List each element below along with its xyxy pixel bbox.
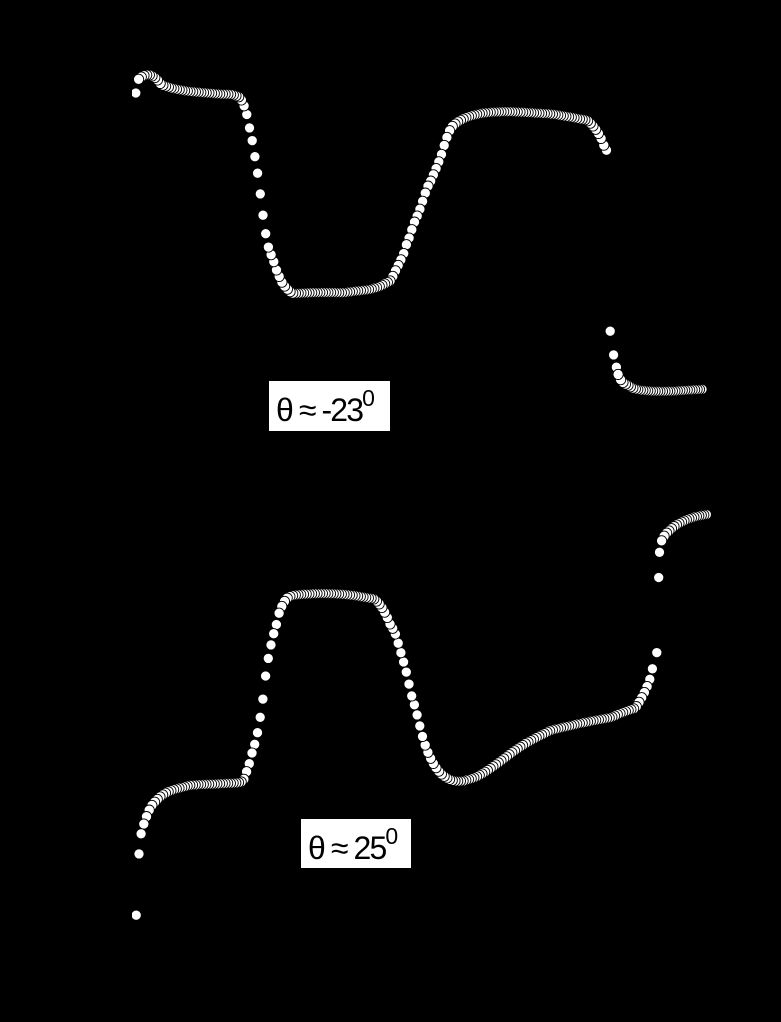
curve 2 upper right branch xyxy=(657,509,712,545)
curve 2 sparse dots before jump xyxy=(647,648,662,674)
curve 2 main branch (theta = 25 deg sweep) xyxy=(136,588,655,839)
curve 1 jump discontinuity dots xyxy=(605,326,621,372)
curve 2 start dots (clipped at left edge) xyxy=(131,849,144,921)
curve 2 jump discontinuity dots xyxy=(654,547,665,582)
curve 1 start dot (clipped at left edge) xyxy=(131,88,141,98)
curve 1 main branch (theta = -23 deg sweep) xyxy=(134,70,612,299)
label theta = 25 deg xyxy=(301,819,411,868)
curve 1 lower branch tail xyxy=(613,369,707,396)
label theta = -23 deg xyxy=(269,381,390,431)
